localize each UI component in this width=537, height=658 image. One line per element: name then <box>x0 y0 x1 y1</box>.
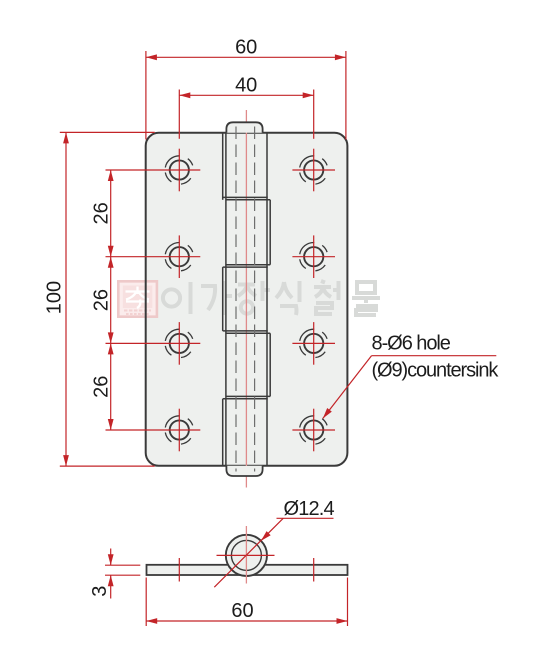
knuckle right inner edge <box>266 133 268 466</box>
hinge body outline stroke <box>146 133 348 466</box>
svg-text:26: 26 <box>91 289 113 311</box>
knuckle joint 3 seam <box>223 330 268 332</box>
dimension 100 extension line bottom <box>60 465 155 467</box>
dimension 60 top line <box>146 56 346 58</box>
svg-text:Ø12.4: Ø12.4 <box>284 498 335 520</box>
dimension 60 bottom line <box>146 620 347 622</box>
hole bottom-right with countersink <box>292 409 335 452</box>
knuckle outer-left edge segment 3 <box>222 399 224 466</box>
knuckle barrel inner circle <box>231 540 261 570</box>
svg-text:100: 100 <box>44 281 66 314</box>
hole top-left with countersink <box>106 149 201 192</box>
dimension 26 middle line <box>110 257 112 344</box>
svg-text:60: 60 <box>235 37 257 59</box>
hole third-left with countersink <box>106 322 201 365</box>
pin cap bottom <box>226 466 262 476</box>
svg-text:40: 40 <box>235 74 257 96</box>
dimension 40 line <box>179 94 313 96</box>
dimension 26 lower line <box>110 343 112 430</box>
dimension 60 top extension line right <box>345 51 347 140</box>
dimension 40 extension line right <box>313 90 315 139</box>
barrel circle horizontal centerline <box>217 554 275 556</box>
svg-text:3: 3 <box>89 586 111 597</box>
watermark glyph 철 <box>314 281 339 314</box>
watermark glyph 이 <box>163 282 191 314</box>
barrel centerline <box>245 110 247 488</box>
hinge body plate fill (front view) <box>146 133 348 466</box>
dimension 40 extension line left <box>178 90 180 139</box>
dimension 100 extension line top <box>60 131 155 133</box>
hole second-right with countersink <box>292 235 335 278</box>
leader line diameter callout <box>277 517 334 519</box>
knuckle outer-left edge segment 1 <box>222 133 224 200</box>
hole third-right with countersink <box>292 322 335 365</box>
knuckle joint 1 seam <box>223 196 268 198</box>
pin hidden line right <box>254 127 256 472</box>
watermark glyph 장 <box>238 281 270 314</box>
watermark glyph 가 <box>201 281 232 315</box>
hole second-left with countersink <box>106 235 201 278</box>
dimension 100 line <box>65 132 67 466</box>
svg-text:26: 26 <box>91 376 113 398</box>
dimension 60 top extension line left <box>145 51 147 140</box>
dimension 3 line <box>110 549 112 566</box>
screw hole tick left <box>178 558 180 582</box>
knuckle outer-right edge segment 2 <box>269 333 271 396</box>
watermark glyph 물 <box>352 282 380 315</box>
svg-text:8-Ø6 hole: 8-Ø6 hole <box>372 333 451 355</box>
svg-text:26: 26 <box>91 202 113 224</box>
dimension 3 extension line top <box>105 564 140 566</box>
watermark seal stamp <box>118 281 157 316</box>
knuckle joint 2 seam <box>226 264 270 266</box>
dimension 3 extension line bottom <box>105 574 140 576</box>
leader line hole callout <box>372 355 497 357</box>
svg-text:60: 60 <box>231 600 253 622</box>
screw hole tick right <box>313 558 315 582</box>
knuckle outer-right edge segment 1 <box>269 200 271 265</box>
dimension 60 bottom extension line left <box>145 578 147 627</box>
knuckle left inner edge <box>225 133 227 466</box>
svg-text:(Ø9)countersink: (Ø9)countersink <box>372 359 500 381</box>
knuckle barrel outer circle <box>226 535 267 576</box>
pin cap top <box>226 122 262 133</box>
knuckle joint 4 seam <box>226 395 270 397</box>
hole top-right with countersink <box>292 149 335 192</box>
dimension 60 bottom extension line right <box>347 578 349 627</box>
plate section outline (bottom view) <box>147 565 348 575</box>
knuckle outer-left edge segment 2 <box>222 267 224 331</box>
barrel circle vertical centerline <box>245 526 247 584</box>
dimension 26 upper line <box>110 170 112 257</box>
pin hidden line left <box>235 127 237 472</box>
watermark glyph 식 <box>276 281 300 315</box>
hole bottom-left with countersink <box>106 409 201 452</box>
